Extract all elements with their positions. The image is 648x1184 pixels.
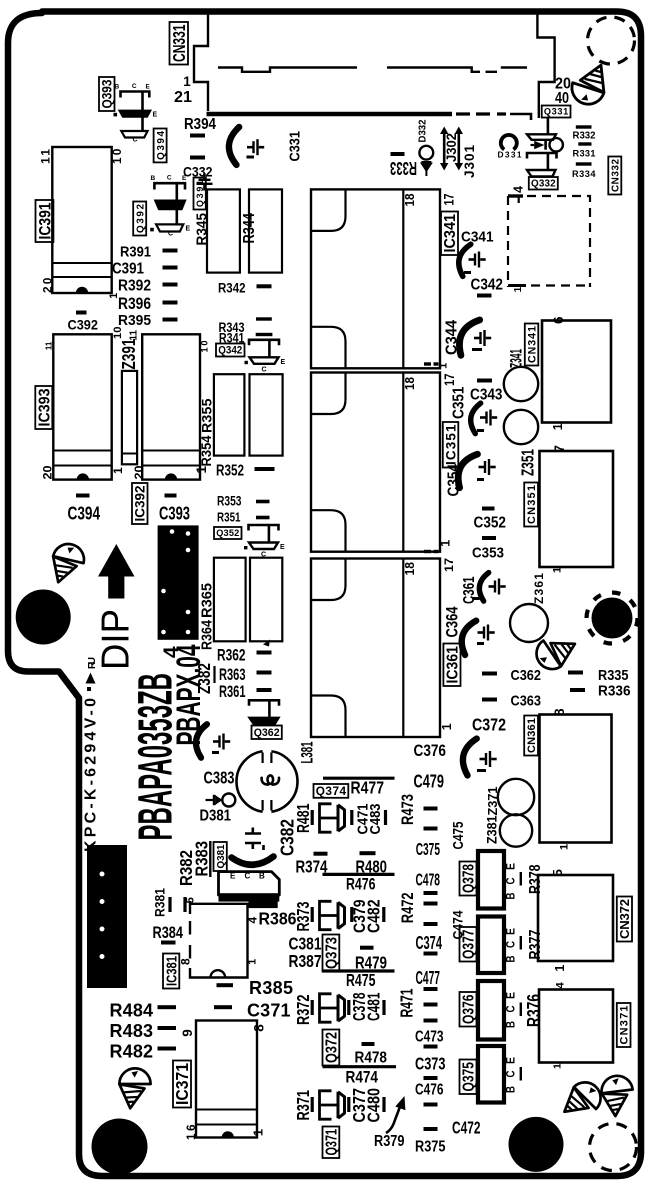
svg-text:C: C xyxy=(168,230,173,237)
transistor Q331 label xyxy=(542,106,571,118)
svg-text:R481: R481 xyxy=(293,803,313,833)
diode D333 with LED circle xyxy=(531,138,563,151)
svg-text:C371: C371 xyxy=(247,1001,291,1021)
diode D332 xyxy=(419,146,433,176)
resistor R336 xyxy=(570,688,585,692)
svg-text:B: B xyxy=(504,1086,518,1093)
transistor Q378 collector mark xyxy=(520,872,522,886)
svg-text:11: 11 xyxy=(39,149,53,164)
resistor R394 xyxy=(190,134,205,138)
capacitor C354 minus mark xyxy=(477,478,484,481)
svg-text:20: 20 xyxy=(40,277,54,293)
svg-text:C392: C392 xyxy=(68,318,99,334)
svg-text:R333: R333 xyxy=(390,158,417,178)
mounting hole dashed top right xyxy=(588,17,635,64)
resistor R343 xyxy=(256,317,272,320)
resistor R384 xyxy=(161,941,176,945)
resistor R353 xyxy=(256,500,270,504)
svg-text:Q332: Q332 xyxy=(531,179,556,190)
resistor R331 xyxy=(576,162,592,165)
capacitor C351 plates xyxy=(480,410,497,426)
svg-text:CN371: CN371 xyxy=(619,1006,631,1045)
capacitor C379 left lead xyxy=(350,907,353,922)
svg-text:C473: C473 xyxy=(415,1029,444,1046)
svg-text:C341: C341 xyxy=(461,229,494,246)
svg-text:4: 4 xyxy=(555,982,567,989)
svg-text:R378: R378 xyxy=(527,864,544,894)
capacitor C383 minus mark xyxy=(212,751,219,754)
resistor R351 xyxy=(256,516,270,520)
svg-text:17: 17 xyxy=(442,558,456,572)
mounting hole dashed bottom right xyxy=(590,1124,637,1171)
resistor R361 xyxy=(257,688,272,692)
varistor Z341 disc 1 xyxy=(504,367,538,401)
capacitor C341 body arc xyxy=(455,242,470,276)
svg-text:10: 10 xyxy=(110,148,124,164)
IC IC351 body xyxy=(311,373,440,552)
capacitor C331 plates xyxy=(247,139,264,155)
svg-text:1: 1 xyxy=(553,965,567,972)
connector CN372 body xyxy=(538,875,613,961)
capacitor C361 plates xyxy=(489,579,506,595)
svg-text:Q371: Q371 xyxy=(324,1129,341,1156)
resistor R385 xyxy=(217,983,234,987)
svg-text:R361: R361 xyxy=(219,683,246,701)
svg-text:R354: R354 xyxy=(199,435,215,466)
capacitor C362 xyxy=(482,672,497,676)
svg-text:C: C xyxy=(504,877,518,884)
transistor Q371 label xyxy=(323,1127,341,1159)
svg-text:8: 8 xyxy=(252,1024,267,1032)
svg-text:R375: R375 xyxy=(415,1139,446,1156)
screw hole middle right xyxy=(530,627,577,675)
connector CN371 body xyxy=(539,990,613,1063)
IC IC393 label xyxy=(35,386,53,429)
transistor Q377 body xyxy=(478,917,504,974)
resistor R371 xyxy=(311,1097,314,1112)
IC IC391 label xyxy=(36,200,55,242)
capacitor C480 right lead xyxy=(382,1097,385,1112)
IC IC381 label xyxy=(163,954,181,989)
svg-text:Q392: Q392 xyxy=(135,204,146,234)
resistor R332 xyxy=(576,125,592,128)
svg-text:Q373: Q373 xyxy=(324,937,341,969)
svg-text:1: 1 xyxy=(559,844,571,850)
transistor Q342 label xyxy=(216,344,245,357)
transistor Q376 collector mark xyxy=(520,1003,522,1017)
svg-text:R396: R396 xyxy=(118,295,151,313)
resistor network R344 body xyxy=(249,189,282,272)
svg-text:C: C xyxy=(504,1070,518,1077)
svg-text:C374: C374 xyxy=(416,933,443,953)
svg-text:Z351: Z351 xyxy=(518,449,538,476)
capacitor C364 plates xyxy=(478,625,495,641)
label CN331 xyxy=(169,22,189,65)
svg-text:Q381: Q381 xyxy=(216,844,227,868)
resistor R373 xyxy=(311,907,314,922)
transistor Q378 label xyxy=(460,862,478,896)
connector CN341 label xyxy=(525,324,539,366)
svg-text:C363: C363 xyxy=(511,693,542,710)
svg-text:B: B xyxy=(504,1021,518,1028)
svg-text:C394: C394 xyxy=(68,504,101,524)
resistor R333b xyxy=(578,142,591,145)
svg-text:C352: C352 xyxy=(474,515,507,532)
svg-text:R392: R392 xyxy=(118,278,151,295)
svg-text:E: E xyxy=(230,872,236,881)
capacitor C344 minus mark xyxy=(472,348,482,351)
transistor Q391 label xyxy=(194,178,206,210)
svg-text:C362: C362 xyxy=(511,667,542,684)
varistor Z341 disc 2 xyxy=(504,410,538,444)
svg-text:C481: C481 xyxy=(364,992,384,1021)
svg-text:IC361: IC361 xyxy=(445,646,462,684)
svg-text:C: C xyxy=(167,175,172,182)
connector CN332 footprint xyxy=(508,196,590,287)
svg-text:11: 11 xyxy=(129,330,140,341)
varistor Z361 disc xyxy=(510,604,548,642)
svg-text:Z381: Z381 xyxy=(485,815,501,844)
svg-text:1: 1 xyxy=(551,423,565,430)
svg-text:C: C xyxy=(262,366,267,373)
svg-text:E: E xyxy=(504,928,518,935)
svg-text:17: 17 xyxy=(442,193,457,205)
svg-text:Q376: Q376 xyxy=(461,994,478,1024)
connector CN361 body xyxy=(540,715,612,843)
capacitor C483 right lead xyxy=(384,810,387,825)
capacitor C391 xyxy=(163,266,178,270)
capacitor C372 minus mark xyxy=(477,769,486,772)
capacitor C394 xyxy=(76,494,90,498)
IC IC392 label xyxy=(132,483,148,524)
resistor R341 xyxy=(256,333,273,336)
svg-text:B: B xyxy=(259,872,265,881)
svg-text:R472: R472 xyxy=(398,892,417,923)
jumper R475 line xyxy=(323,969,395,972)
capacitor C382 xyxy=(245,828,265,851)
transistor Q375 collector mark xyxy=(520,1067,522,1081)
diode D331 xyxy=(501,135,517,150)
svg-text:20: 20 xyxy=(41,465,55,479)
orientation arrow xyxy=(98,544,135,599)
transistor Q372 xyxy=(320,994,345,1022)
svg-text:CN331: CN331 xyxy=(169,24,189,62)
transistor Q372 label xyxy=(323,1030,341,1066)
svg-text:CN372: CN372 xyxy=(617,899,632,939)
capacitor C332 plates xyxy=(197,173,213,190)
resistor R392 xyxy=(163,283,178,287)
svg-text:Z382: Z382 xyxy=(194,663,214,694)
transistor Q362 xyxy=(249,700,279,724)
transistor Q375 pin labels xyxy=(504,1057,518,1093)
svg-text:1: 1 xyxy=(438,363,450,369)
resistor R362 xyxy=(257,651,272,655)
transistor Q375 label xyxy=(460,1060,478,1095)
svg-text:R331: R331 xyxy=(573,149,596,159)
svg-text:R473: R473 xyxy=(398,794,417,825)
svg-text:Q378: Q378 xyxy=(461,864,478,893)
jumper R474 line xyxy=(323,1065,397,1068)
svg-text:Q352: Q352 xyxy=(216,528,239,538)
svg-text:C375: C375 xyxy=(416,839,441,859)
svg-text:E: E xyxy=(153,112,158,119)
screw hole bottom right 1 xyxy=(562,1077,606,1124)
svg-text:C393: C393 xyxy=(159,504,190,524)
IC IC371 body xyxy=(196,1021,257,1138)
svg-text:KPC-K-6294V-0: KPC-K-6294V-0 xyxy=(83,698,100,852)
transistor Q378 body xyxy=(478,851,504,909)
resistor R335 xyxy=(568,671,583,675)
svg-text:R342: R342 xyxy=(218,281,246,297)
svg-text:4: 4 xyxy=(512,186,526,193)
transistor Q392 label xyxy=(133,202,146,236)
capacitor C342 xyxy=(477,294,492,298)
svg-text:R371: R371 xyxy=(293,1090,313,1121)
resistor R483 xyxy=(158,1026,177,1030)
transistor Q393 xyxy=(114,83,158,143)
capacitor C377 left lead xyxy=(347,1097,350,1112)
svg-text:CN341: CN341 xyxy=(527,326,539,363)
svg-text:C372: C372 xyxy=(472,715,506,735)
svg-text:B: B xyxy=(504,893,518,900)
svg-text:R332: R332 xyxy=(573,131,596,142)
resistor network R345 body xyxy=(207,189,240,272)
svg-text:C478: C478 xyxy=(416,870,441,890)
capacitor C354 plates xyxy=(479,459,496,475)
svg-text:C344: C344 xyxy=(444,320,461,355)
transistor Q376 label xyxy=(460,992,478,1027)
wire R379 pointer xyxy=(386,1096,405,1133)
svg-text:IC393: IC393 xyxy=(37,388,54,426)
svg-text:C391: C391 xyxy=(112,261,144,278)
resistor R374 xyxy=(314,852,328,856)
svg-text:10: 10 xyxy=(200,341,210,353)
svg-text:R391: R391 xyxy=(120,244,151,261)
IC IC371 label xyxy=(172,1061,192,1108)
connector CN331 interior key line xyxy=(218,68,527,72)
varistor Z381 disc xyxy=(500,814,532,846)
capacitor C383 plates xyxy=(213,734,230,750)
resistor network R355 body xyxy=(214,374,245,455)
svg-text:E: E xyxy=(504,992,518,999)
transistor Q378 pin labels xyxy=(504,863,518,900)
svg-text:R362: R362 xyxy=(217,647,246,665)
resistor R482 xyxy=(158,1047,177,1051)
svg-text:R351: R351 xyxy=(217,510,241,525)
svg-text:10: 10 xyxy=(112,326,124,339)
svg-text:D332: D332 xyxy=(418,119,429,142)
svg-text:R381: R381 xyxy=(153,888,169,917)
resistor R478 xyxy=(362,1042,375,1046)
capacitor C361 minus mark xyxy=(473,597,480,600)
capacitor C331 minus mark xyxy=(247,156,255,159)
svg-text:C483: C483 xyxy=(367,804,384,835)
IC IC341 label xyxy=(441,212,459,256)
svg-text:C331: C331 xyxy=(287,131,304,162)
svg-text:C: C xyxy=(132,83,137,90)
resistor R363 tick xyxy=(213,666,215,683)
svg-text:R384: R384 xyxy=(153,924,184,942)
svg-text:R363: R363 xyxy=(219,666,246,684)
connector CN331 right cutout edge xyxy=(537,12,554,119)
resistor network R364 body xyxy=(250,558,282,642)
IC IC361 body xyxy=(311,559,440,738)
resistor R481 xyxy=(311,810,314,825)
transistor Q352 xyxy=(244,525,285,559)
svg-text:C354: C354 xyxy=(446,464,463,497)
resistor R396 xyxy=(163,301,178,305)
IC IC391 body xyxy=(52,147,111,293)
capacitor C481 right lead xyxy=(382,1000,385,1015)
varistor Z371 disc xyxy=(498,779,534,815)
svg-text:1: 1 xyxy=(552,567,564,573)
svg-text:R376: R376 xyxy=(524,994,544,1027)
svg-text:R476: R476 xyxy=(346,876,376,894)
svg-text:C342: C342 xyxy=(471,277,504,294)
transistor Q374 label xyxy=(314,784,349,798)
svg-text:Q393: Q393 xyxy=(100,79,115,108)
mounting hole black middle left xyxy=(16,590,71,645)
svg-text:Q362: Q362 xyxy=(254,727,280,739)
capacitor C353 xyxy=(482,536,496,540)
zener Z391 body xyxy=(122,371,137,464)
svg-text:5: 5 xyxy=(550,869,565,876)
svg-text:R484: R484 xyxy=(110,1001,154,1021)
capacitor C351 body arc xyxy=(468,402,480,434)
svg-text:C480: C480 xyxy=(364,1088,384,1123)
resistor R383 label xyxy=(192,841,212,877)
svg-text:E: E xyxy=(504,863,518,870)
svg-text:Z391: Z391 xyxy=(119,339,139,370)
jumper R476 line xyxy=(323,873,395,876)
resistor R479 xyxy=(360,946,374,950)
svg-text:R471: R471 xyxy=(397,988,417,1017)
svg-text:Q394: Q394 xyxy=(156,131,167,160)
capacitor C341 plates xyxy=(469,252,486,268)
svg-text:E: E xyxy=(146,84,151,91)
mounting hole black bottom right xyxy=(509,1117,564,1172)
svg-text:B: B xyxy=(151,175,156,182)
connector CN372 label xyxy=(617,897,632,942)
svg-text:7: 7 xyxy=(552,445,567,453)
capacitor C363 xyxy=(482,698,497,702)
transistor Q332 xyxy=(527,153,557,177)
resistor R372 xyxy=(311,1000,314,1015)
resistor network R365 body xyxy=(214,558,246,642)
svg-text:9: 9 xyxy=(180,1029,195,1037)
connector CN361 label xyxy=(524,716,538,756)
svg-text:Q374: Q374 xyxy=(316,784,347,798)
svg-text:R482: R482 xyxy=(110,1042,154,1062)
svg-text:Z361: Z361 xyxy=(532,573,546,604)
svg-text:Q372: Q372 xyxy=(324,1032,341,1063)
pin arrow R364 xyxy=(263,640,270,647)
svg-text:E: E xyxy=(280,544,285,551)
resistor R391 xyxy=(163,249,178,253)
transistor Q352 label xyxy=(214,527,242,539)
svg-text:4: 4 xyxy=(246,917,260,924)
capacitor C341 minus mark xyxy=(464,271,471,274)
svg-text:C472: C472 xyxy=(452,1118,481,1138)
svg-text:R386: R386 xyxy=(259,909,297,929)
transistor Q342 xyxy=(245,340,286,374)
svg-text:R335: R335 xyxy=(598,667,629,684)
transistor Q375 body xyxy=(478,1046,504,1103)
transistor Q393 label xyxy=(99,77,115,111)
svg-text:1: 1 xyxy=(251,1128,266,1136)
svg-text:18: 18 xyxy=(402,377,417,390)
resistor R363 xyxy=(257,671,272,675)
connector CN331 bottom edge xyxy=(207,112,453,117)
transistor Q362 label xyxy=(252,726,282,740)
svg-text:1: 1 xyxy=(513,286,524,292)
capacitor C331 body arc xyxy=(228,126,239,165)
svg-text:Q331: Q331 xyxy=(544,107,568,117)
capacitor C354 body arc xyxy=(452,450,478,488)
capacitor C378 left lead xyxy=(347,1000,350,1015)
svg-text:B: B xyxy=(504,956,518,963)
svg-text:E: E xyxy=(281,359,286,366)
transistor Q377 collector mark xyxy=(520,936,522,950)
resistor R393 xyxy=(190,156,205,160)
capacitor C392 xyxy=(76,311,87,315)
svg-text:RU: RU xyxy=(87,657,98,669)
svg-text:1: 1 xyxy=(247,959,259,965)
transistor Q331 xyxy=(527,118,556,140)
wire pad dashes column xyxy=(424,807,438,1132)
svg-text:21: 21 xyxy=(174,89,192,106)
svg-text:R474: R474 xyxy=(346,1069,379,1087)
capacitor C344 body arc xyxy=(453,316,480,356)
transistor Q332 label xyxy=(529,177,558,190)
capacitor C344 plates xyxy=(474,330,491,346)
capacitor C343 xyxy=(477,379,492,383)
svg-text:R395: R395 xyxy=(118,312,151,329)
screw hole middle left xyxy=(52,543,86,583)
svg-text:R377: R377 xyxy=(527,929,544,959)
connector CN371 label xyxy=(617,1003,631,1047)
svg-text:R385: R385 xyxy=(249,978,293,998)
screw hole top right xyxy=(572,65,604,104)
IC IC393 body xyxy=(53,334,111,479)
transistor Q381 xyxy=(219,857,280,909)
transistor Q377 label xyxy=(460,927,478,962)
svg-text:17: 17 xyxy=(442,373,458,386)
svg-text:R383: R383 xyxy=(192,841,212,877)
svg-text:18: 18 xyxy=(402,562,417,576)
svg-text:R372: R372 xyxy=(293,995,313,1026)
svg-text:D381: D381 xyxy=(200,808,232,825)
coil L381 xyxy=(237,750,298,814)
svg-text:R352: R352 xyxy=(216,463,244,480)
svg-text:CN361: CN361 xyxy=(526,718,538,753)
svg-text:C351: C351 xyxy=(451,386,468,419)
connector CN332 label xyxy=(608,157,621,195)
svg-text:E: E xyxy=(186,225,191,232)
connector CN351 label xyxy=(524,483,538,527)
svg-text:CN351: CN351 xyxy=(526,485,538,524)
svg-text:1: 1 xyxy=(111,467,125,474)
resistor R381 leads xyxy=(168,897,171,912)
connector CN351 body xyxy=(540,451,614,567)
svg-text:1: 1 xyxy=(183,74,191,89)
svg-text:1: 1 xyxy=(439,540,453,547)
svg-text:1: 1 xyxy=(440,723,454,730)
svg-text:IC341: IC341 xyxy=(442,214,459,253)
connector CN341 body xyxy=(542,321,611,423)
svg-text:C353: C353 xyxy=(472,545,504,562)
svg-text:C: C xyxy=(504,1005,518,1012)
